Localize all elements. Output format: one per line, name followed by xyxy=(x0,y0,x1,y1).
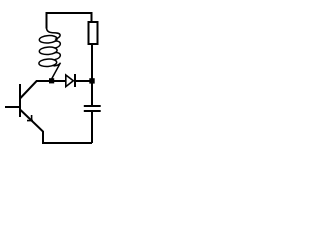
wire resistor bottom to node B xyxy=(91,45,93,80)
wire diode cathode to node B xyxy=(76,80,92,82)
diode D1 cathode bar xyxy=(74,74,76,87)
capacitor C1 bottom plate xyxy=(84,110,101,112)
inductor L1 loop 3 xyxy=(39,58,57,67)
transistor Q1 emitter arrowhead xyxy=(27,115,33,121)
wire collector diagonal and to diode anode xyxy=(20,81,66,99)
transistor Q1 base bar xyxy=(19,84,21,117)
diode D1 xyxy=(66,75,74,87)
wire top loop from coil to resistor xyxy=(47,13,92,29)
wire base lead xyxy=(5,106,19,108)
transistor Q1 emitter and wire to bottom xyxy=(20,110,92,144)
inductor L1 loop 2-3 curl xyxy=(55,53,61,60)
inductor L1 loop 2 xyxy=(39,46,57,55)
capacitor C1 top plate xyxy=(84,105,101,107)
wire lead-in curve from top wire into coil L1 xyxy=(47,28,61,39)
node A junction xyxy=(49,78,54,83)
inductor L1 loop 1 xyxy=(39,35,57,44)
resistor R1 xyxy=(89,22,98,44)
wire lead-out from coil to node A xyxy=(52,63,61,79)
wire node B to capacitor xyxy=(91,83,93,106)
node B junction xyxy=(89,78,94,83)
wire capacitor to bottom wire xyxy=(91,112,93,143)
inductor L1 loop 1-2 curl xyxy=(55,41,61,48)
